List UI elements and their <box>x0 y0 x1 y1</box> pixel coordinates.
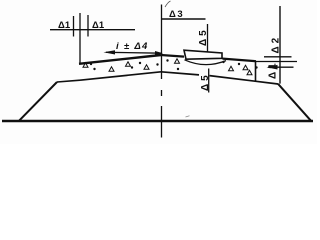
right arrowhead <box>267 65 278 70</box>
svg-text:Δ1: Δ1 <box>92 20 105 31</box>
ballast band top edge right (to plate) <box>161 55 184 57</box>
ballast triangle <box>83 63 88 67</box>
ballast dot <box>238 63 240 65</box>
ballast triangle <box>243 65 248 69</box>
svg-text:i ± Δ4: i ± Δ4 <box>116 41 149 52</box>
ballast triangle <box>247 70 252 74</box>
dim Delta5 lower vline <box>208 69 210 93</box>
dim Delta1 right tick <box>87 15 89 37</box>
dim Delta5 upper vline <box>207 24 209 52</box>
svg-text:Δ1: Δ1 <box>268 60 279 79</box>
ballast triangle <box>229 66 234 70</box>
ballast dot <box>222 61 224 63</box>
ballast dot <box>90 63 92 65</box>
sag arc under plate <box>185 60 227 65</box>
right tick hline B <box>256 61 297 63</box>
svg-text:Δ2: Δ2 <box>271 35 282 54</box>
svg-text:Δ1: Δ1 <box>58 20 71 31</box>
ballast triangle <box>126 62 131 66</box>
ballast band top edge right (after plate) <box>223 59 257 62</box>
bearing plate <box>184 50 222 59</box>
ballast triangle <box>144 65 149 69</box>
dim vline right reference <box>279 6 281 84</box>
right arrow line <box>268 66 294 68</box>
dim Delta3 hline <box>162 18 206 20</box>
centerline <box>161 5 163 138</box>
ballast dot <box>131 66 133 68</box>
ballast band top edge left <box>79 55 161 64</box>
svg-text:Δ3: Δ3 <box>169 9 184 20</box>
ground line <box>2 120 313 122</box>
slope arrowhead left <box>104 50 116 54</box>
ballast dot <box>139 62 141 64</box>
embankment left shoulder <box>57 80 80 82</box>
right tick hline A <box>264 56 292 58</box>
slope arrow i±Delta4 <box>106 51 162 54</box>
ballast band bottom edge left <box>80 72 161 80</box>
ballast dot <box>156 63 158 65</box>
ballast band bottom edge right <box>161 72 278 84</box>
dim Delta1 left tick <box>73 16 75 37</box>
svg-text:Δ5: Δ5 <box>198 27 209 46</box>
scan fleck top center <box>165 1 171 7</box>
embankment left slope <box>19 82 57 121</box>
ballast triangle <box>175 59 180 63</box>
ballast dot <box>166 59 168 61</box>
scan fleck above ground <box>186 116 190 117</box>
ballast band right edge <box>255 61 257 81</box>
dim Delta1 hline <box>50 29 135 31</box>
dim Delta1 reference vline <box>79 13 81 64</box>
embankment right slope <box>278 84 311 121</box>
ballast dot <box>93 68 95 70</box>
ballast triangle <box>109 67 114 71</box>
crown arrowhead right <box>155 51 163 55</box>
svg-text:Δ5: Δ5 <box>200 72 211 91</box>
ballast dot <box>255 66 257 68</box>
ballast dot <box>177 68 179 70</box>
